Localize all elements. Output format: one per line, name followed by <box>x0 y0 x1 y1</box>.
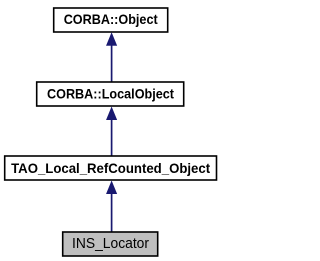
svg-text:INS_Locator: INS_Locator <box>72 236 149 252</box>
node CORBA::Object <box>54 8 168 32</box>
svg-text:CORBA::Object: CORBA::Object <box>64 11 158 27</box>
inheritance arrow TAO_Local_RefCounted_Object to CORBA::LocalObject <box>107 107 117 155</box>
svg-text:CORBA::LocalObject: CORBA::LocalObject <box>47 86 174 102</box>
node TAO_Local_RefCounted_Object <box>5 156 217 180</box>
inheritance arrow INS_Locator to TAO_Local_RefCounted_Object <box>107 181 117 231</box>
node CORBA::LocalObject <box>37 82 184 106</box>
svg-text:TAO_Local_RefCounted_Object: TAO_Local_RefCounted_Object <box>11 160 210 176</box>
node INS_Locator (current class, grey) <box>63 232 158 256</box>
inheritance arrow CORBA::LocalObject to CORBA::Object <box>107 33 117 82</box>
